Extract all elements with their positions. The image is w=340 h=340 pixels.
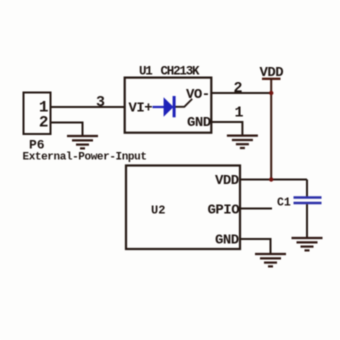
wire net 1 (U1 GND to ground) <box>211 122 242 135</box>
svg-text:GND: GND <box>187 115 211 131</box>
ground (U1 GND) <box>227 136 258 148</box>
wire P6.2 to ground <box>51 123 83 136</box>
svg-text:3: 3 <box>96 94 105 111</box>
svg-text:2: 2 <box>234 80 243 97</box>
svg-text:GPIO: GPIO <box>208 203 240 219</box>
diode D1 inside U1 <box>153 96 193 117</box>
ground (U2 GND) <box>255 254 286 266</box>
wire GPIO stub <box>240 208 272 210</box>
junction dot (U2 VDD / rail) <box>269 177 273 181</box>
svg-text:External-Power-Input: External-Power-Input <box>23 152 147 164</box>
svg-text:CH213K: CH213K <box>161 65 201 79</box>
ground (C1) <box>292 238 323 250</box>
svg-text:VI+: VI+ <box>129 101 153 117</box>
capacitor C1 <box>294 180 322 238</box>
wire U2 VDD to rail and C1 <box>240 179 307 181</box>
junction dot (net2 / VDD rail) <box>269 91 273 95</box>
svg-text:U2: U2 <box>151 204 165 218</box>
IC U2 box <box>126 166 240 250</box>
svg-text:1: 1 <box>235 105 244 122</box>
regulator U1 box <box>125 78 212 133</box>
svg-text:2: 2 <box>39 114 49 132</box>
wire net 2 (VO- to VDD rail) <box>211 92 271 94</box>
svg-text:GND: GND <box>215 233 239 249</box>
ground (P6.2) <box>67 136 98 148</box>
svg-text:U1: U1 <box>139 65 152 79</box>
svg-text:C1: C1 <box>277 197 291 210</box>
connector P6 <box>24 93 51 153</box>
wire U2 GND to ground <box>240 239 271 254</box>
svg-text:VDD: VDD <box>215 173 239 189</box>
svg-text:P6: P6 <box>29 138 45 153</box>
power symbol VDD <box>260 65 284 180</box>
wire net 3 (P6.1 to U1 VI+) <box>51 106 126 108</box>
